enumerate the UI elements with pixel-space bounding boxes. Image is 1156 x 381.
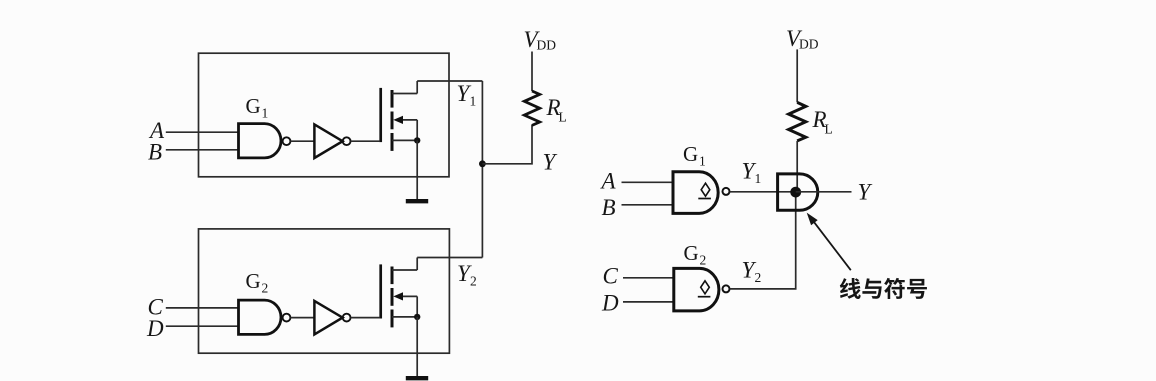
svg-text:G: G (246, 269, 261, 293)
resistor RL (right) (789, 102, 806, 140)
wire: input B (166, 149, 239, 151)
wire: Q2 drain stub (392, 269, 417, 271)
transistor Q1 body arrow (393, 116, 417, 124)
svg-text:D: D (601, 291, 619, 316)
NAND gate G1 body (right, open-drain) (673, 172, 718, 214)
svg-text:2: 2 (262, 281, 269, 296)
label Y2 (right) (742, 258, 762, 286)
svg-text:2: 2 (700, 253, 707, 268)
inverter triangle (block 2) (314, 301, 342, 335)
wire: input A (166, 131, 239, 133)
svg-text:DD: DD (537, 37, 557, 52)
NAND gate G2 body (right, open-drain) (674, 268, 719, 311)
label VDD (right) (786, 26, 819, 51)
inverter output bubble (block 2) (343, 314, 351, 322)
wire: Y2 output of block 2 (417, 257, 482, 259)
ground (block 1) (406, 199, 428, 203)
wire: VDD to resistor (left) (531, 52, 533, 92)
wire: Y1 output of block 1 (417, 80, 482, 82)
annotation arrow to wired-AND symbol (807, 213, 851, 271)
label Y2 (left) (457, 261, 477, 289)
label G1 (left) (246, 94, 269, 121)
svg-text:G: G (684, 241, 699, 265)
wire: Q1 drain stub (392, 93, 417, 95)
inverter output bubble (block 1) (343, 137, 351, 145)
svg-text:L: L (825, 122, 833, 137)
wire: input B (right) (622, 204, 674, 206)
svg-text:A: A (600, 169, 617, 194)
G2 output bubble (right) (723, 285, 730, 292)
svg-text:G: G (246, 94, 261, 118)
node: Y junction (left) (479, 160, 486, 167)
svg-text:L: L (559, 110, 567, 125)
label G2 (left) (246, 269, 269, 296)
label G2 (right) (684, 241, 707, 268)
open-drain qualifier diamond of G2 (698, 281, 711, 297)
wire: inverter to Q2 gate (351, 317, 380, 319)
label VDD (left) (524, 27, 557, 52)
NAND G1 output bubble (283, 137, 291, 145)
wire: input C (right) (623, 277, 674, 279)
svg-text:1: 1 (262, 106, 269, 121)
transistor Q2 channel source segment (391, 310, 394, 328)
wire: Q1 source stub (392, 139, 417, 141)
node: Q1 source junction (414, 137, 420, 143)
wire: Q1 body drop to source node (416, 120, 418, 140)
wire: Y2 up to wired-AND node (730, 192, 796, 289)
wire: Q2 source stub (392, 316, 417, 318)
annotation text 线与符号 (wired-AND symbol) (840, 278, 927, 299)
wire: Y node to resistor RL (left) (482, 125, 532, 164)
NAND gate G2 body (left) (239, 300, 282, 334)
svg-text:1: 1 (755, 171, 762, 186)
wire: Q2 body drop to source node (416, 296, 418, 317)
wire: inverter to Q1 gate (351, 140, 380, 142)
wire: VDD to resistor (right) (796, 49, 798, 102)
wire: input C (166, 307, 239, 309)
svg-text:DD: DD (799, 36, 819, 51)
wire: resistor to wired-AND node (right) (796, 141, 798, 192)
transistor Q1 channel drain segment (391, 90, 394, 108)
label Y1 (right) (742, 159, 762, 187)
transistor Q2 channel drain segment (391, 267, 394, 285)
inverter triangle (block 1) (314, 124, 342, 158)
resistor RL (left) (524, 91, 539, 125)
svg-text:1: 1 (699, 154, 706, 169)
transistor Q2 gate bar (379, 264, 382, 318)
G1 output bubble (right) (723, 188, 730, 195)
NAND G2 output bubble (283, 314, 291, 322)
wire: Q1 drain riser (416, 81, 418, 94)
transistor Q2 body arrow (393, 292, 417, 300)
label G1 (right) (683, 142, 706, 169)
transistor Q1 channel source segment (391, 133, 394, 151)
wire: input D (right) (623, 301, 674, 303)
label Y1 (left) (457, 81, 477, 109)
transistor Q1 gate bar (379, 88, 382, 142)
svg-text:2: 2 (470, 274, 477, 289)
transistor Q1 channel body segment (391, 112, 394, 130)
wire: Q2 source to ground (416, 317, 418, 376)
node: wired-AND junction dot (790, 187, 801, 198)
svg-text:1: 1 (470, 94, 477, 109)
svg-text:D: D (146, 316, 164, 341)
wire: input A (right) (622, 181, 674, 183)
open-drain qualifier diamond of G1 (698, 183, 711, 198)
label RL (left) (546, 95, 567, 125)
transistor Q2 channel body segment (391, 288, 394, 306)
wire: output Y (right) (796, 191, 852, 193)
wire: input D (166, 325, 239, 327)
svg-text:G: G (683, 142, 698, 166)
wire: Y1 to wired-AND node (730, 191, 796, 193)
wire: Q2 drain riser (416, 258, 418, 271)
wire: Q1 source to ground (416, 140, 418, 199)
svg-text:B: B (602, 195, 616, 220)
label RL (right) (812, 107, 833, 137)
svg-text:Y: Y (858, 180, 873, 205)
node: Q2 source junction (414, 314, 420, 320)
wire: G1 output to inverter (290, 140, 314, 142)
svg-text:C: C (603, 264, 619, 289)
svg-text:Y: Y (543, 150, 558, 175)
wire: common trunk net Y (left) (481, 81, 483, 258)
wired-AND symbol (D shape) (778, 174, 818, 210)
NAND gate G1 body (left) (239, 124, 281, 158)
box: internal structure of gate G1 (199, 53, 450, 177)
svg-text:B: B (148, 140, 162, 165)
svg-text:2: 2 (755, 270, 762, 285)
ground (block 2) (406, 376, 428, 380)
wire: G2 output to inverter (290, 317, 314, 319)
box: internal structure of gate G2 (199, 229, 450, 353)
